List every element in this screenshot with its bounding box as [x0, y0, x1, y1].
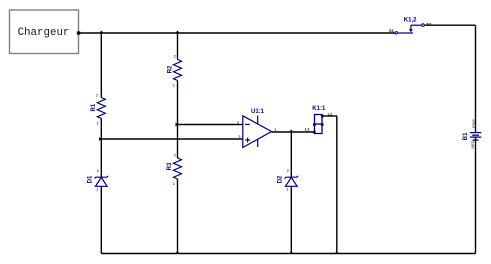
junction node at R2/R3 to op-amp	[176, 123, 179, 127]
svg-text:1: 1	[173, 181, 176, 186]
wire contact to right edge	[425, 24, 476, 26]
svg-text:Chargeur: Chargeur	[18, 27, 70, 39]
wire relay top pin to right column	[322, 115, 337, 117]
svg-text:D1: D1	[88, 175, 94, 183]
svg-text:B1: B1	[463, 132, 469, 140]
junction node at x=101 top	[99, 31, 103, 34]
svg-text:K1:1: K1:1	[312, 106, 326, 112]
svg-text:2: 2	[97, 168, 100, 173]
svg-text:L1: L1	[305, 127, 310, 132]
wire R1 to D1	[100, 119, 102, 178]
wire bottom rail	[101, 253, 475, 255]
junction node at D2 branch	[289, 130, 293, 133]
wire op-amp output to relay coil	[272, 131, 315, 133]
svg-text:R1: R1	[91, 103, 97, 111]
svg-text:K1,2: K1,2	[404, 17, 417, 23]
svg-text:1: 1	[274, 127, 277, 132]
resistor R3	[167, 152, 181, 186]
Chargeur block	[10, 10, 81, 54]
svg-text:R3: R3	[167, 162, 173, 170]
wire battery to bottom rail	[475, 137, 477, 253]
wire D2 to bottom rail	[290, 186, 292, 253]
junction node at D2 bottom	[289, 251, 293, 254]
junction node at R1/D1 to op-amp	[99, 137, 102, 141]
svg-text:2: 2	[287, 168, 290, 173]
junction node at x=177.5 top	[175, 31, 179, 34]
relay contact K1,2	[389, 17, 432, 34]
svg-text:S1: S1	[389, 28, 395, 33]
wire relay column to bottom rail	[336, 116, 338, 254]
svg-text:1: 1	[173, 83, 176, 88]
svg-text:D2: D2	[278, 175, 284, 183]
junction node at relay column bottom	[335, 251, 339, 254]
resistor R2	[168, 54, 182, 88]
svg-text:2: 2	[96, 93, 99, 98]
diode D2 (zener)	[278, 168, 299, 192]
wire top rail	[80, 32, 395, 34]
wire R2 to R3	[177, 81, 179, 159]
wire top rail to R2	[177, 33, 179, 60]
diode D1 (zener)	[88, 168, 109, 192]
svg-text:1: 1	[97, 121, 100, 126]
op-amp U1:1	[237, 109, 277, 148]
svg-text:NEG: NEG	[470, 140, 475, 149]
wire to op-amp - input	[178, 124, 244, 126]
svg-text:3: 3	[238, 134, 241, 139]
svg-text:2: 2	[237, 119, 240, 124]
wire junction to D2	[290, 132, 292, 177]
svg-text:2: 2	[174, 152, 177, 157]
svg-text:1: 1	[286, 187, 289, 192]
junction node at R3 bottom	[175, 251, 179, 254]
svg-text:2: 2	[174, 54, 177, 59]
battery B1	[463, 119, 481, 149]
wire right edge down to battery	[475, 25, 477, 132]
wire left column top to R1	[100, 33, 102, 98]
svg-text:POS: POS	[471, 119, 476, 128]
wire to op-amp + input	[101, 138, 243, 140]
wire R3 to bottom rail	[177, 179, 179, 254]
svg-text:1: 1	[96, 187, 99, 192]
svg-text:U1:1: U1:1	[251, 109, 265, 115]
svg-text:R2: R2	[168, 65, 174, 73]
wire D1 to bottom rail	[100, 186, 102, 253]
resistor R1	[91, 93, 106, 126]
relay coil K1:1	[305, 106, 333, 133]
